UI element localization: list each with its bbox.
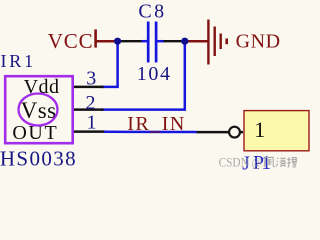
- pin 1 (OUT): [74, 112, 105, 134]
- connector JP1 body: [244, 111, 309, 151]
- pin 2 (Vss): [74, 92, 104, 114]
- sheet background: [0, 0, 315, 178]
- svg-text:3: 3: [86, 68, 96, 90]
- connector JP1 pin wire: [197, 131, 244, 134]
- designator label C8: [138, 0, 166, 22]
- svg-text:CSDN @: CSDN @: [219, 154, 262, 169]
- pin 3 (Vdd): [74, 68, 104, 90]
- svg-text:104: 104: [137, 63, 172, 85]
- svg-text:C8: C8: [138, 0, 166, 22]
- designator label IR1: [1, 51, 36, 71]
- wire VCC junction down-left to pin 3: [101, 41, 118, 87]
- svg-text:1: 1: [254, 117, 265, 142]
- svg-text:IR_IN: IR_IN: [127, 113, 186, 135]
- junction node at VCC: [114, 38, 121, 45]
- wire GND junction to ground symbol: [185, 40, 208, 43]
- pin name OUT: [12, 122, 58, 144]
- svg-text:GND: GND: [236, 31, 281, 53]
- hand-drawn tiny glyph 揚: [287, 157, 297, 167]
- pin name Vdd: [24, 76, 60, 98]
- watermark CSDN @風清揚: [219, 154, 297, 169]
- wire capacitor to GND junction: [164, 40, 183, 42]
- wire pin 1 to connector (net IR_IN): [104, 131, 197, 134]
- net label IR_IN: [127, 113, 186, 135]
- part number label HS0038: [0, 146, 77, 170]
- svg-text:Vss: Vss: [21, 98, 57, 123]
- svg-text:IR1: IR1: [1, 51, 36, 71]
- svg-text:HS0038: HS0038: [0, 146, 77, 170]
- hand-drawn tiny glyph 風: [264, 158, 275, 167]
- value label 104: [137, 63, 172, 85]
- ground symbol GND: [208, 20, 280, 65]
- designator label JP1: [242, 152, 271, 175]
- wire GND junction down-left to pin 2: [101, 41, 185, 109]
- junction node at GND: [181, 38, 188, 45]
- IC IR1 body (HS0038): [5, 76, 73, 143]
- capacitor C8: [142, 22, 164, 63]
- power symbol VCC: [48, 29, 116, 53]
- hand-drawn tiny glyph 清: [276, 158, 286, 167]
- connector JP1 pin hotspot circle: [229, 127, 240, 138]
- pin name Vss: [21, 98, 57, 123]
- wire junction dot1 to capacitor C8: [118, 40, 143, 42]
- highlight circle around Vss: [19, 94, 58, 126]
- svg-text:1: 1: [87, 112, 97, 134]
- svg-text:VCC: VCC: [48, 29, 94, 53]
